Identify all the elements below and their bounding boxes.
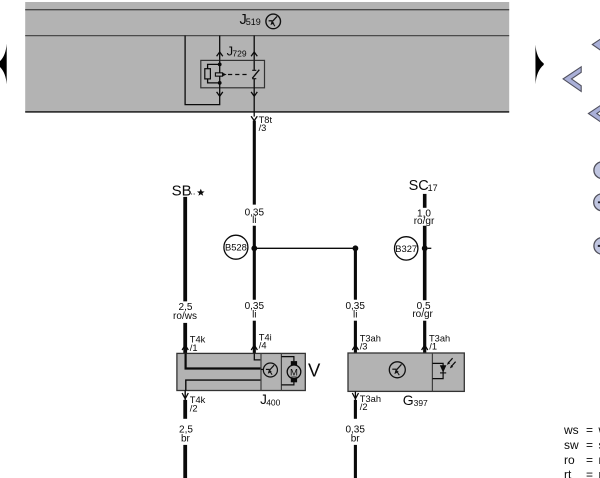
label 0,35 li track3 [345, 301, 365, 320]
band bottom border line [25, 111, 509, 113]
junction dot track3 [353, 245, 359, 251]
svg-text:V: V [308, 360, 321, 381]
junction dot B528 [251, 245, 257, 251]
internal wire to T4k/2 [186, 380, 261, 390]
label 2,5 ro/ws [173, 302, 197, 322]
wiper motor control unit J400 box [177, 353, 305, 390]
motor lead bottom [281, 379, 294, 385]
svg-text:SB: SB [172, 182, 192, 199]
wire J400 exit thin [184, 391, 186, 400]
svg-text:..: .. [190, 187, 195, 197]
photodiode triangle [440, 365, 447, 372]
internal wire from T4i/4 [254, 353, 260, 360]
toolbar circle button [594, 162, 600, 179]
label T4k /2 [190, 395, 206, 414]
relay coil [205, 69, 211, 79]
wire track2 middle [253, 226, 256, 300]
arrow down at T8t [251, 116, 257, 120]
toolbar zoom-in button [594, 194, 600, 211]
label T3ah /1 [429, 334, 450, 352]
wire link B528 to track3 [254, 247, 355, 249]
stub to symbol circle [261, 368, 263, 370]
light arrow 1 [447, 358, 453, 365]
svg-text:rt: rt [564, 468, 572, 478]
label J729 [227, 44, 247, 59]
relay J729 box [201, 60, 265, 87]
wire track2 upper (0,35 li) [253, 121, 256, 205]
band top border line [25, 9, 509, 11]
svg-text:/1: /1 [429, 341, 437, 351]
toolbar chevron full [563, 67, 581, 92]
toolbar chevron top partial [592, 32, 600, 57]
relay coil branch wire [208, 64, 220, 83]
wire: relay output through band bottom [253, 88, 255, 117]
svg-text:SC: SC [409, 178, 429, 194]
G397 inner divider [431, 353, 433, 391]
light arrow 2 [450, 362, 456, 369]
wire G397 exit thin [354, 391, 356, 400]
svg-text:=: = [586, 468, 593, 478]
label J400 [260, 392, 281, 407]
arrow up at T4k [182, 345, 188, 350]
svg-text:li: li [252, 215, 256, 226]
wire track4 into G397 [423, 321, 426, 353]
wire track3 upper [354, 248, 357, 299]
photodiode bracket [432, 363, 443, 378]
svg-text:519: 519 [246, 17, 261, 27]
arrow up into relay right [251, 52, 257, 56]
dashed actuation line [228, 74, 248, 76]
label 2,5 br [179, 425, 193, 445]
arrow down at T4k/2 [182, 393, 188, 399]
label T4i /4 [259, 333, 272, 351]
nav arrow right [535, 45, 543, 84]
label T8t /3 [259, 115, 273, 133]
wiper motor V symbol [287, 365, 301, 379]
wire: coil return loop to bus [185, 36, 220, 105]
label 1,0 ro/gr [414, 209, 435, 228]
motor lead top [281, 357, 294, 362]
label G397 [403, 392, 428, 408]
arrow down out of relay left [217, 92, 223, 96]
control unit J519 gray band [25, 2, 509, 112]
svg-text:/2: /2 [360, 402, 368, 412]
wire stub below SC17 [423, 194, 427, 208]
wire track1 into J400 [183, 323, 187, 354]
arrow down out of relay right [251, 92, 257, 96]
label 0,5 ro/gr [412, 301, 433, 320]
svg-text:G: G [403, 392, 414, 408]
svg-text:/3: /3 [360, 341, 368, 351]
label T3ah /2 [360, 394, 381, 412]
svg-text:B528: B528 [225, 242, 247, 253]
arrow up into relay left [217, 52, 223, 56]
junction dot coil bottom [218, 81, 222, 85]
wire track1 upper (2,5 ro/ws) [183, 197, 187, 302]
wire track2 into J400 [253, 321, 256, 354]
svg-text:B327: B327 [395, 243, 417, 254]
svg-text:ro/gr: ro/gr [412, 309, 433, 320]
junction dot coil top [218, 63, 222, 67]
wire track3 into G397 [354, 321, 357, 353]
J400 inner divider left [260, 353, 262, 390]
svg-text:/3: /3 [259, 123, 267, 133]
relay switch contact [252, 60, 259, 87]
tick right of B327 dot [428, 247, 432, 249]
svg-text:=: = [586, 423, 593, 437]
svg-text:/2: /2 [190, 404, 198, 414]
label 0,35 li track2 upper [245, 207, 265, 226]
relay armature [215, 73, 226, 77]
internal wire from T4k/1 [186, 353, 261, 368]
wire through relay left [219, 60, 221, 87]
wire track3 bottom (0,35 br) [354, 400, 357, 419]
connection B528 circle [224, 235, 248, 259]
toolbar zoom-out button [594, 238, 600, 255]
svg-text:397: 397 [414, 398, 428, 408]
toolbar chevron mid partial [588, 101, 600, 126]
rain sensor G397 box [348, 353, 464, 391]
motor terminal top [291, 361, 297, 365]
wire track1 to edge [183, 445, 187, 478]
J400 inner divider right [280, 353, 282, 390]
svg-text:ro: ro [564, 453, 575, 467]
label J519 [240, 12, 261, 28]
svg-text:/1: /1 [190, 343, 198, 353]
nav arrow left [0, 44, 7, 85]
fuse label SB..star [172, 182, 205, 199]
arrow up at T3ah right [422, 345, 428, 350]
junction dot B327 [422, 245, 428, 251]
svg-text:ro/gr: ro/gr [414, 216, 435, 227]
connection SC17 [409, 178, 438, 194]
photodiode cathode bar [440, 372, 446, 374]
svg-text:br: br [351, 434, 361, 445]
wire: relay contact feed from bus [253, 36, 255, 61]
wire track1 bottom (2,5 br) [183, 400, 187, 419]
symbol circle of J400 [263, 363, 277, 377]
svg-text:=: = [586, 453, 593, 467]
svg-text:/4: /4 [259, 340, 267, 350]
label 0,35 li track2 lower [245, 301, 265, 320]
svg-text:li: li [353, 309, 357, 320]
motor terminal bottom [291, 378, 297, 382]
symbol circle of G397 [389, 362, 405, 378]
wire colour legend [563, 423, 600, 478]
svg-text:sw: sw [564, 438, 579, 452]
arrow up at T4i [251, 345, 257, 350]
internal bus line of J519 [25, 35, 509, 37]
svg-text:400: 400 [266, 397, 280, 407]
svg-text:br: br [181, 434, 191, 445]
wire track3 to edge [354, 445, 357, 478]
wire track4 middle [423, 226, 427, 300]
label 0,35 br [345, 425, 365, 445]
svg-text:ws: ws [563, 423, 579, 437]
svg-text:17: 17 [428, 183, 438, 193]
svg-text:li: li [252, 309, 256, 320]
svg-text:729: 729 [232, 48, 246, 58]
label T3ah /3 [360, 334, 381, 352]
svg-text:=: = [586, 438, 593, 452]
label T4k /1 [190, 334, 206, 353]
symbol circle of J519 [266, 14, 281, 29]
arrow down at T3ah/2 [352, 393, 358, 399]
arrow up at T3ah left [352, 345, 358, 350]
wire: relay coil feed from bus [219, 36, 221, 61]
svg-text:ro/ws: ro/ws [173, 311, 197, 322]
connection B327 circle [395, 237, 418, 260]
